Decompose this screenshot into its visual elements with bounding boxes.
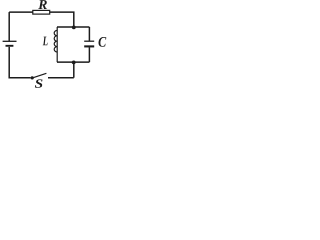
wire: top-left horizontal (battery top to resistor) — [9, 11, 32, 13]
battery top lead — [8, 12, 10, 41]
wire: inner bottom horizontal (inductor bottom to capacitor bottom) — [57, 61, 89, 63]
node: top junction dot — [72, 26, 76, 30]
inductor L (coil: axis line with four left loops) — [56, 27, 58, 62]
wire: junction stub down to bottom wire — [73, 62, 75, 78]
wire: bottom left (switch to battery) — [9, 47, 30, 78]
label R — [38, 0, 47, 9]
battery positive plate (long thin) — [3, 40, 17, 42]
wire: resistor to top-right corner, down to tank top — [50, 12, 74, 27]
capacitor C top plate — [84, 40, 94, 42]
label C — [99, 37, 107, 47]
capacitor C bottom lead — [88, 47, 90, 62]
switch S blade — [32, 73, 46, 78]
label L — [43, 37, 48, 46]
capacitor C bottom plate — [84, 45, 94, 47]
switch S pivot dot — [31, 76, 34, 79]
capacitor C top lead — [88, 27, 90, 41]
resistor R (rectangle body) — [33, 10, 50, 14]
label S — [35, 79, 43, 87]
wire: inner top horizontal (inductor top to capacitor top) — [57, 26, 89, 28]
node: bottom junction dot — [72, 61, 76, 65]
battery negative plate (short thick) — [6, 45, 14, 47]
wire: bottom right (stub to switch) — [48, 77, 74, 79]
